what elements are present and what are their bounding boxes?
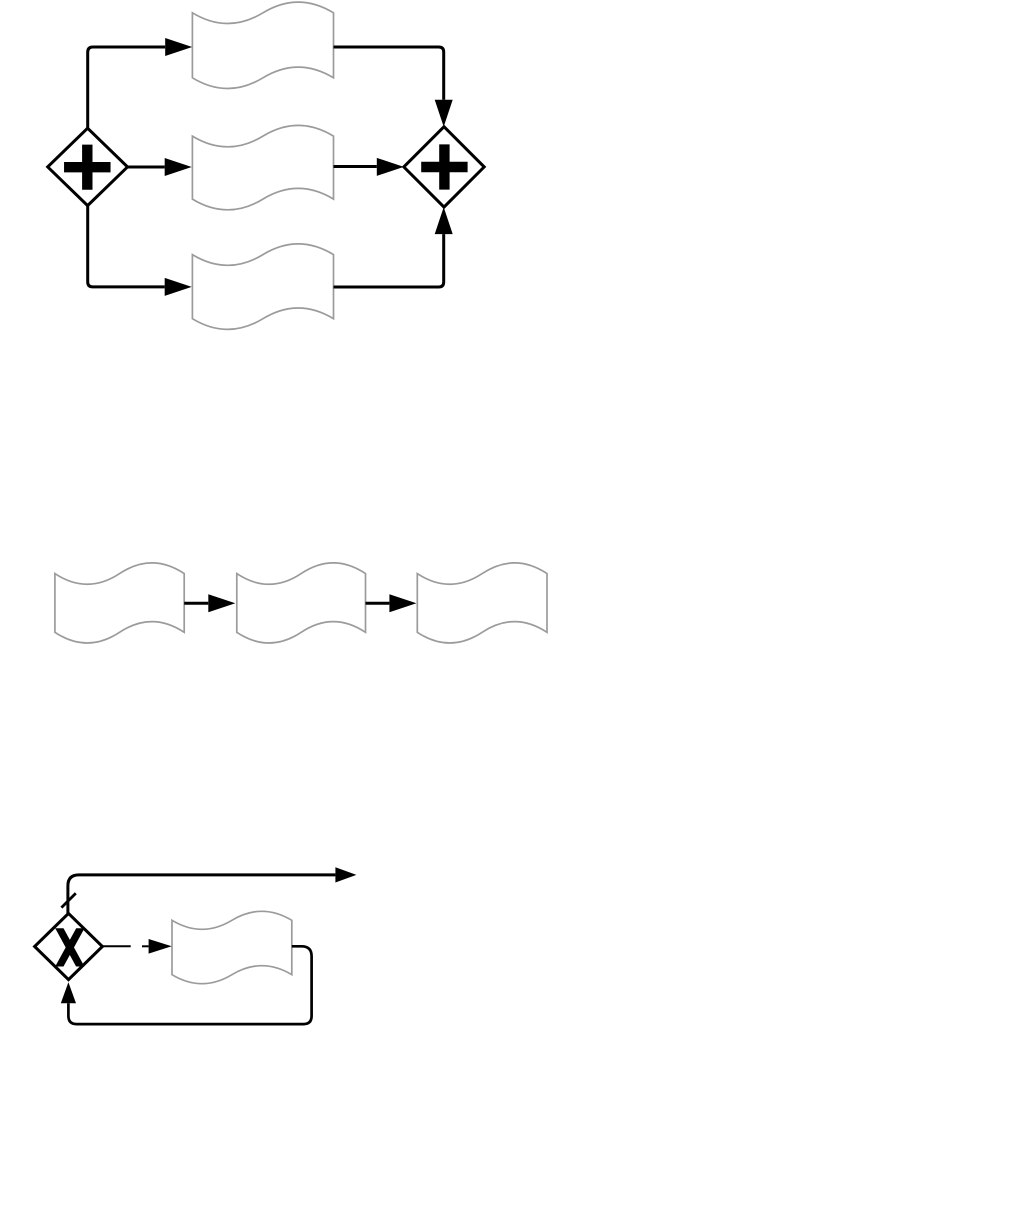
sequence flow wire TA to TB [184,594,235,612]
sequence flow wire GWX right stub [102,945,130,947]
parallel gateway GW1 (split) [48,128,128,205]
default flow slash marker [61,893,75,907]
sequence flow wire GW1 right to T2 [128,158,192,176]
sequence flow wire T1 to GW2 top [334,47,453,127]
task tape TD (loop body) [172,911,292,983]
loop-back wire TD to GWX bottom [61,946,312,1024]
exclusive gateway GWX [35,913,103,979]
sequence flow wire TB to TC [366,594,417,612]
sequence flow wire T2 to GW2 left [334,158,404,176]
task tape TB (sequence row, second) [237,563,366,643]
task tape T2 (middle branch) [192,125,333,209]
task tape T1 (top branch) [192,2,333,88]
sequence flow wire T3 to GW2 bottom [334,207,453,287]
sequence flow wire GW1 bottom to T3 [88,206,192,296]
sequence flow wire GW1 top to T1 [88,38,193,128]
task tape TC (sequence row, third) [417,563,547,643]
default flow wire GWX top, long arrow right [68,867,357,913]
sequence flow arrow into TD [142,939,172,954]
task tape T3 (bottom branch) [192,244,333,330]
task tape TA (sequence row, first) [55,563,184,643]
parallel gateway GW2 (join) [404,127,484,207]
